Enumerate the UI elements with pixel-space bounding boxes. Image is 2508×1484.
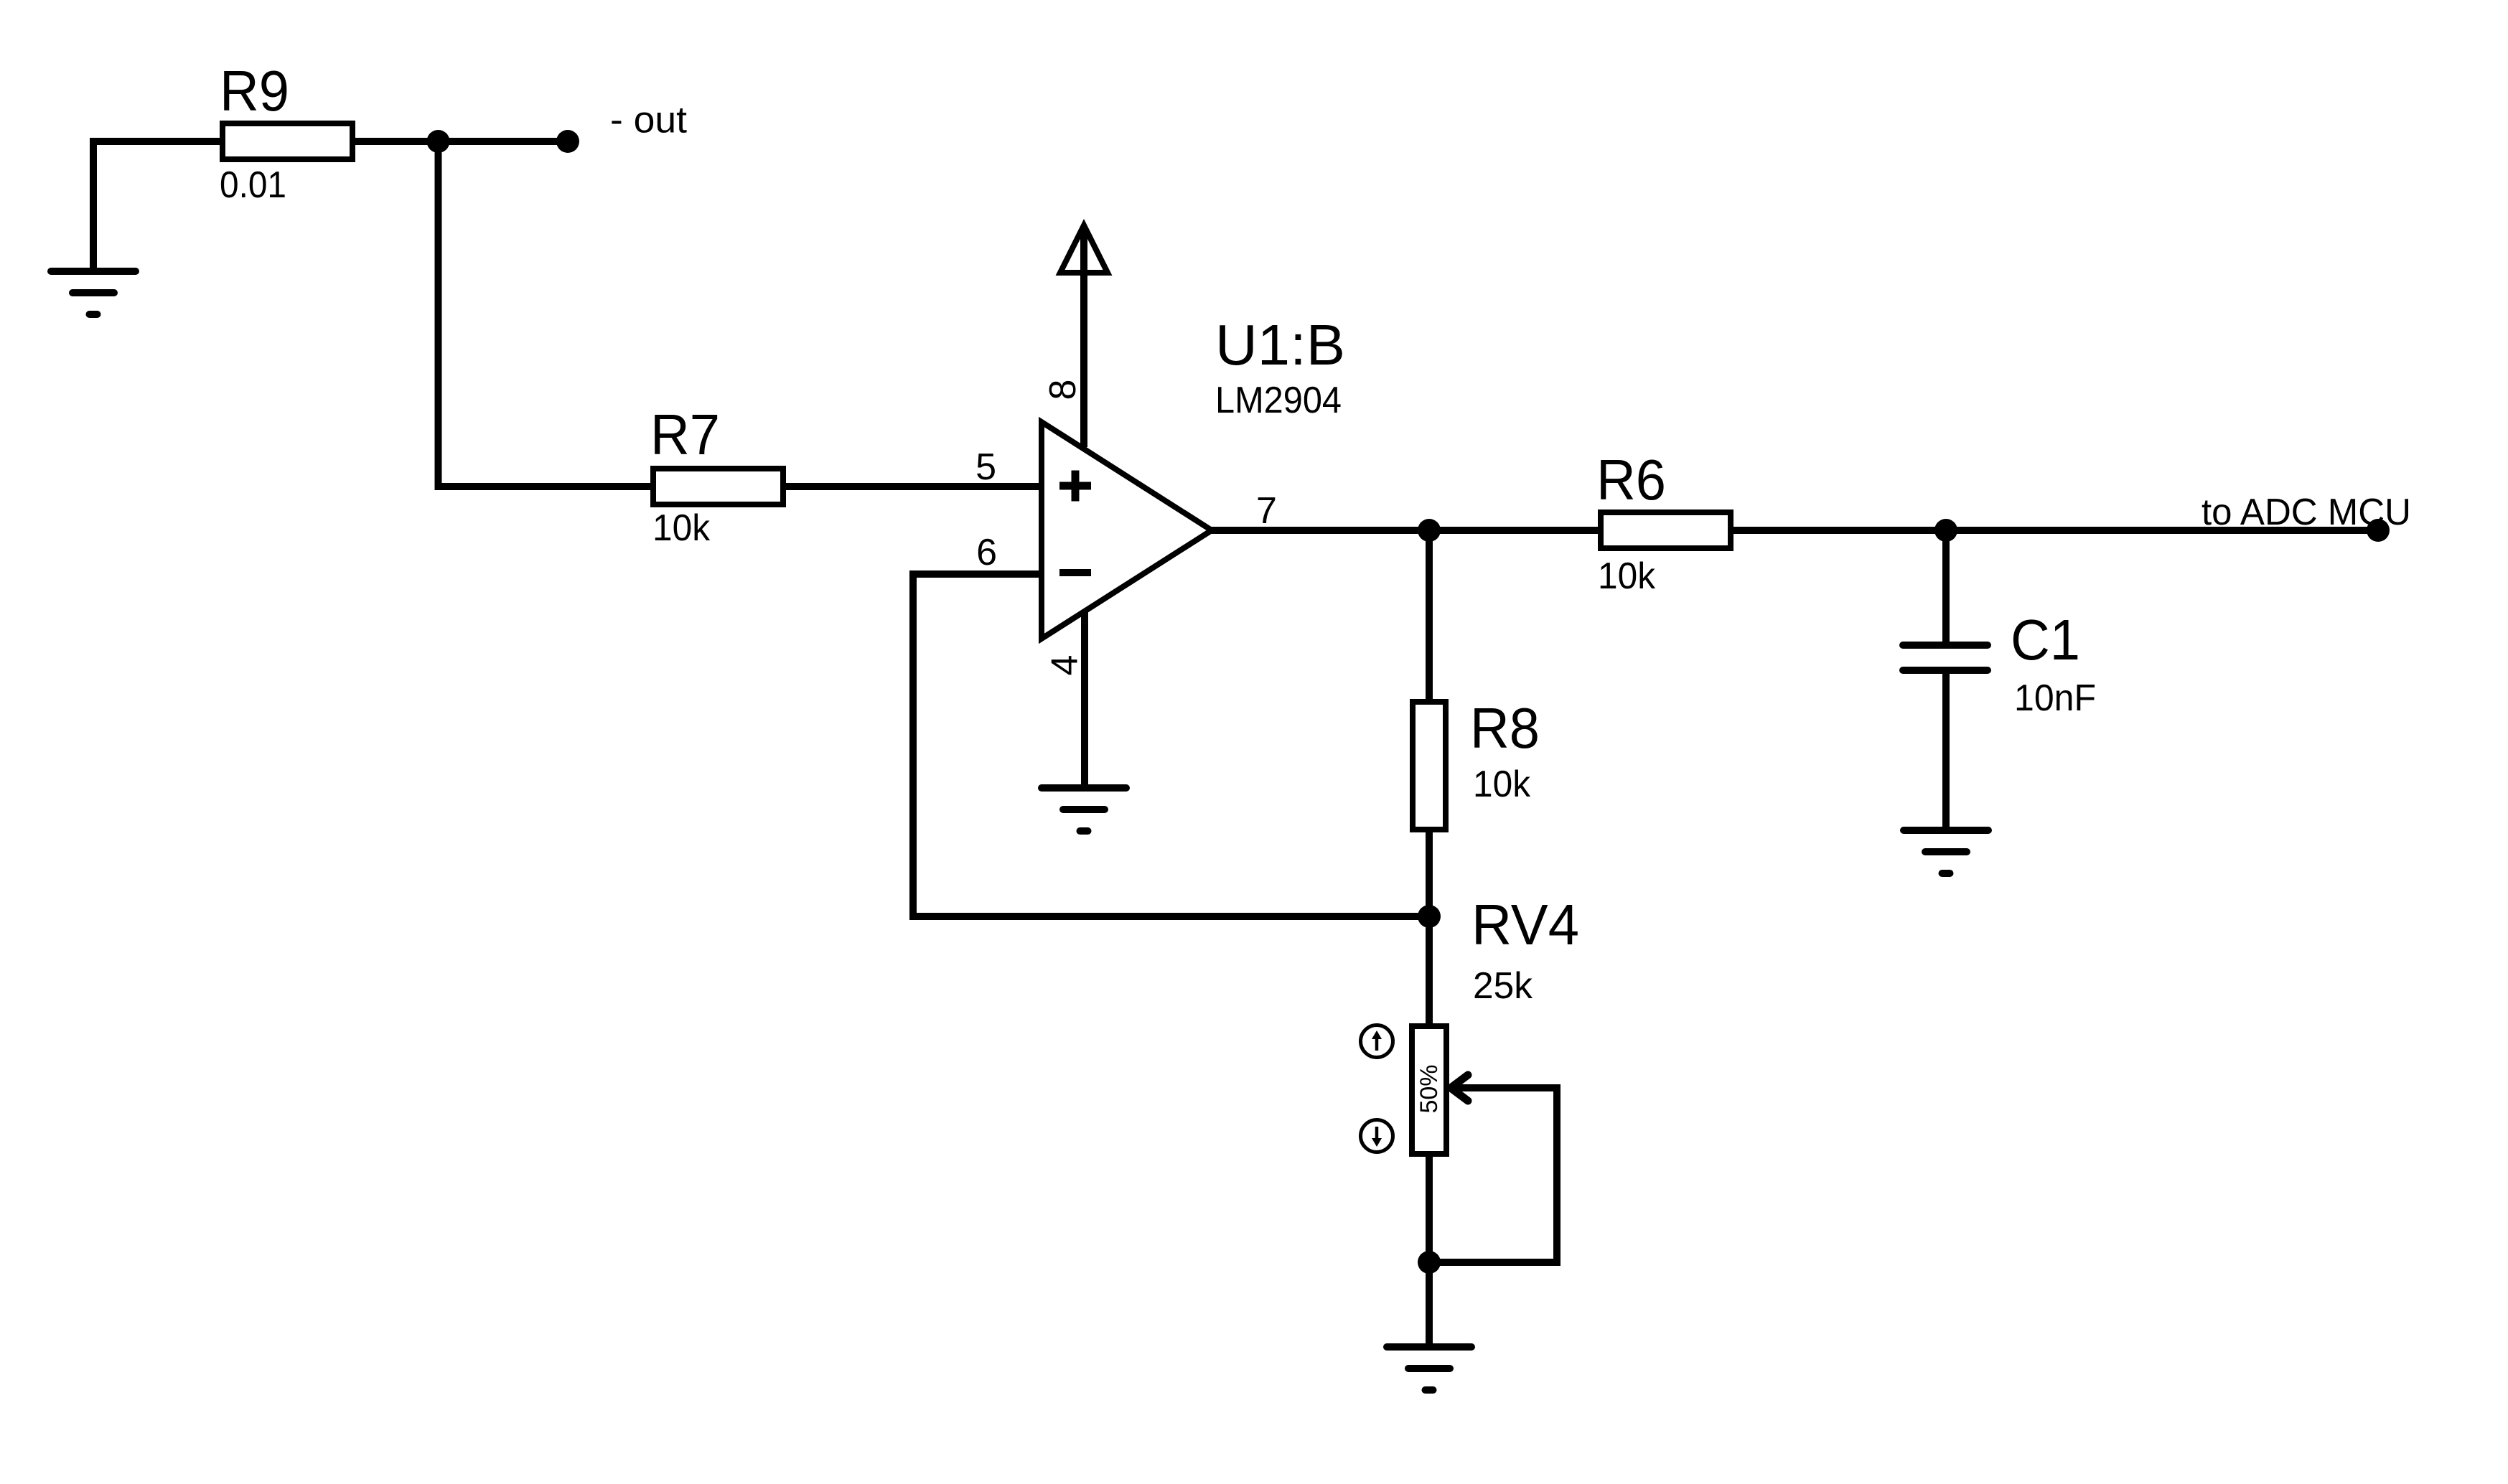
power symbol V+ arrow (1060, 225, 1108, 273)
svg-text:8: 8 (1042, 380, 1084, 400)
node: C1 branch junction (1934, 519, 1957, 542)
ground (RV4 bottom) (1387, 1347, 1471, 1390)
svg-text:0.01: 0.01 (220, 164, 286, 206)
potentiometer RV4 body (1412, 1026, 1446, 1154)
svg-text:50%: 50% (1416, 1064, 1443, 1113)
wire: RV4 bottom to ground (1426, 1157, 1433, 1345)
wire: junction down and right to R7 (439, 138, 651, 487)
svg-text:4: 4 (1044, 655, 1085, 676)
svg-text:10nF: 10nF (2014, 677, 2096, 719)
wire: junction down to C1 (1942, 530, 1950, 642)
ground (op-amp pin 4) (1042, 788, 1126, 831)
wire: output junction down to R8 (1426, 530, 1433, 699)
ground (C1) (1904, 830, 1988, 873)
wire: pin 6 feedback loop (left/down/right) (913, 574, 1429, 916)
svg-text:R7: R7 (650, 403, 720, 466)
svg-text:10k: 10k (652, 507, 711, 549)
wire: pin 8 power (1080, 230, 1087, 447)
svg-text:25k: 25k (1473, 965, 1533, 1007)
svg-text:R8: R8 (1470, 696, 1540, 760)
node: wiper junction (1418, 1251, 1441, 1274)
svg-text:5: 5 (975, 446, 996, 488)
wire: pin 7 output to R6 (1212, 527, 1598, 534)
svg-text:10k: 10k (1598, 555, 1656, 597)
capacitor C1 (1903, 645, 1988, 670)
resistor R8 (1413, 702, 1446, 830)
svg-text:to ADC MCU: to ADC MCU (2201, 492, 2411, 533)
wire: pin 4 to ground (1081, 611, 1088, 786)
wire: R6 to ADC terminal (1733, 527, 2378, 534)
svg-text:6: 6 (976, 532, 997, 573)
svg-text:R6: R6 (1596, 448, 1666, 512)
wiper arrow of RV4 (1429, 1088, 1557, 1262)
node: output junction (1418, 519, 1441, 542)
RV4 up arrow symbol (1361, 1025, 1393, 1058)
svg-text:RV4: RV4 (1471, 893, 1579, 957)
svg-text:10k: 10k (1473, 764, 1531, 805)
terminal: - out (556, 130, 579, 153)
node: junction at - out branch (427, 130, 450, 153)
wire: R8 bottom through feedback node to RV4 (1426, 832, 1433, 1023)
RV4 down arrow symbol (1361, 1120, 1393, 1152)
wire: C1 to ground (1942, 674, 1950, 828)
svg-text:- out: - out (610, 100, 688, 141)
node: feedback junction (1418, 905, 1441, 928)
op-amp U1:B triangle (1042, 422, 1212, 639)
wire: R9 to - out terminal (355, 138, 568, 145)
resistor R7 (653, 469, 783, 504)
wire: R7 to op-amp pin 5 (786, 483, 1042, 490)
svg-text:R9: R9 (220, 59, 289, 123)
svg-text:7: 7 (1256, 490, 1277, 532)
wire: R9 left terminal to ground (93, 141, 220, 269)
resistor R6 (1601, 512, 1731, 548)
minus input symbol (1059, 569, 1091, 576)
terminal: to ADC MCU (2367, 519, 2390, 542)
svg-text:U1:B: U1:B (1215, 313, 1345, 377)
plus input symbol (1059, 471, 1091, 502)
svg-text:C1: C1 (2011, 608, 2080, 672)
svg-text:LM2904: LM2904 (1215, 380, 1342, 421)
resistor R9 (223, 123, 352, 159)
ground (R9 net) (51, 271, 136, 314)
